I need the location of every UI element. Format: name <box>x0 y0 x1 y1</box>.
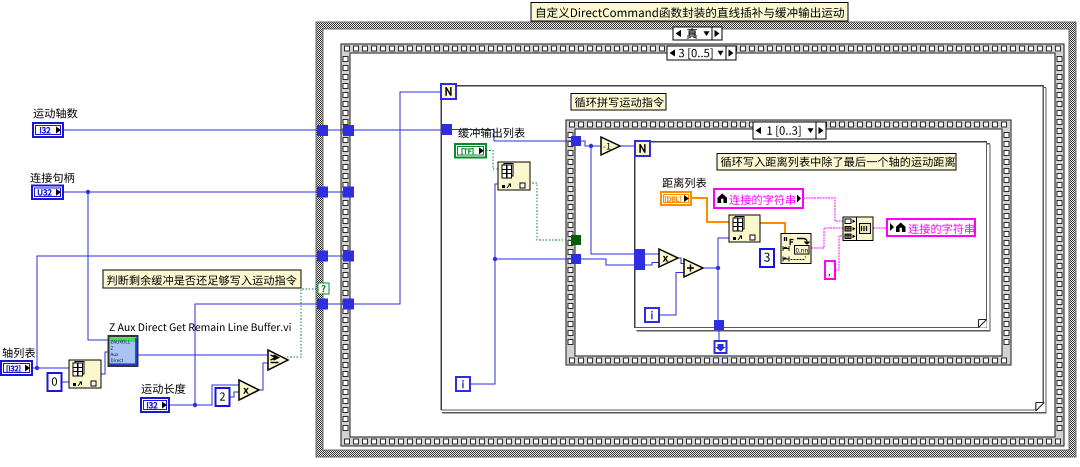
wire multiply to add (inner) <box>678 258 684 264</box>
wire greater-equal to case selector ? <box>287 289 317 357</box>
wire loop count between borders <box>328 303 343 305</box>
wire multiply to greater-equal <box>259 363 268 390</box>
terminal 轴列表 [I32] <box>1 361 32 375</box>
label 距离列表 <box>662 178 706 189</box>
wire 距离列表 DBL to index node 2 <box>691 198 729 222</box>
wire 轴列表 between borders <box>328 255 343 257</box>
tunnel inner seq row3 <box>571 254 581 264</box>
terminal 运动长度 I32 <box>141 398 169 412</box>
terminal 连接句柄 U32 <box>32 186 63 200</box>
tunnel case row1 <box>317 125 328 136</box>
label 缓冲输出列表 <box>458 128 525 138</box>
wire 运动长度 to multiply <box>169 385 239 405</box>
tunnel seq row1 <box>343 125 354 136</box>
wire TF terminal to index node (boolean array) <box>486 151 499 170</box>
wire branch down to inner loop tunnel upper <box>591 146 634 254</box>
i terminal (inner loop) <box>645 308 659 322</box>
label Z Aux Direct Get Remain Line Buffer.vi <box>110 323 291 332</box>
stacked sequence structure border (film) <box>341 44 1064 446</box>
sequence local (down arrow) <box>715 341 727 353</box>
node index array (buffer list) <box>498 162 530 190</box>
node -1 (decrement) <box>601 137 620 155</box>
wire comma constant to concatenate <box>835 236 843 270</box>
label 连接句柄 <box>30 173 74 183</box>
node concatenate strings <box>843 217 873 241</box>
wire 轴列表 to index node <box>32 367 69 369</box>
tunnel seq row2 <box>343 187 354 198</box>
wire 运动轴数 seq to loop tunnel <box>354 129 441 131</box>
label 运动长度 <box>141 384 185 394</box>
for loop (inner) folded corner <box>978 319 986 327</box>
constant 0 <box>48 373 62 391</box>
wire loop count seq to N <box>354 92 441 304</box>
node multiply (left) <box>239 380 259 400</box>
terminal 缓冲输出列表 [TF] <box>455 144 486 158</box>
wire index node to green tunnel <box>529 183 571 240</box>
wire format node to concatenate <box>811 228 843 248</box>
tunnel inner seq green <box>571 235 581 245</box>
wire bottom tunnel to sequence local <box>718 330 720 342</box>
wire index node 2 to format node <box>759 223 785 233</box>
wire junction down to bottom tunnel <box>717 268 719 321</box>
node index array 2 (distance) <box>729 215 760 242</box>
constant 3 <box>760 249 774 267</box>
subVI Z Aux Direct Get Remain Line Buffer <box>109 336 138 366</box>
diagram title label <box>531 3 848 22</box>
wire 2 constant to multiply <box>229 392 239 397</box>
case structure border (checkered) <box>316 22 1076 457</box>
wire 运动轴数 to case <box>63 129 317 131</box>
wire local variable 1 to concatenate <box>803 198 843 221</box>
wire i (inner) to add <box>658 273 684 316</box>
label 循环拼写运动指令 <box>571 94 666 111</box>
constant comma string <box>825 261 835 279</box>
wire VI output to greater-equal <box>137 354 268 356</box>
label 判断剩余缓冲是否还足够写入运动指令 <box>103 270 301 288</box>
tunnel case row2 <box>317 187 328 198</box>
tunnel loop row1 <box>441 124 452 135</box>
inner sequence frame selector 1 [0..3] <box>753 122 826 139</box>
constant 2 <box>216 388 230 406</box>
node add (inner) <box>684 259 703 277</box>
tunnel inner seq row1 <box>571 136 581 146</box>
wire 连接句柄 between borders <box>328 191 343 193</box>
node multiply (inner) <box>659 249 678 267</box>
case selector label 真 <box>673 27 722 40</box>
node greater-or-equal <box>268 350 288 370</box>
tunnel case row4 <box>317 299 328 310</box>
wire lower tunnel to multiply (inner) <box>645 263 659 266</box>
node index array (axis list) <box>69 360 101 388</box>
terminal 距离列表 [DBL] <box>661 192 691 205</box>
tunnel case row3 <box>317 251 328 262</box>
N terminal (outer loop) <box>441 84 456 99</box>
inner sequence structure border (film) <box>566 120 1011 365</box>
wire i (outer) to index node vertical <box>470 184 499 384</box>
for loop (inner) frame <box>634 141 991 331</box>
i terminal (outer loop) <box>456 377 470 391</box>
tunnel inner loop bottom <box>714 320 724 330</box>
wire index node to VI <box>101 352 109 374</box>
wire upper tunnel to multiply (inner) <box>645 253 659 255</box>
tunnel inner loop lower <box>634 260 645 271</box>
tunnel seq row3 <box>343 251 354 262</box>
label 运动轴数 <box>33 108 77 118</box>
tunnel inner loop upper <box>634 249 645 260</box>
for loop (outer) frame <box>441 85 1047 414</box>
wire 轴列表 up and to case <box>37 256 317 368</box>
wire i branch to inner seq tunnel <box>495 258 571 260</box>
case selector terminal ? <box>318 283 329 294</box>
wire -1 to N <box>620 145 635 147</box>
local variable 连接的字符串 (write) <box>887 219 975 236</box>
sequence frame selector 3 [0..5] <box>667 46 736 60</box>
wire 0 constant to index node <box>62 381 69 383</box>
tunnel seq row4 <box>343 299 354 310</box>
wire inner seq to inner loop lower tunnel <box>581 259 634 265</box>
wire i (inner loop count) stub <box>650 147 652 149</box>
label 循环写入距离列表中除了最后一个轴的运动距离 <box>717 154 956 171</box>
label 轴列表 <box>3 348 36 358</box>
terminal 运动轴数 I32 <box>33 123 63 137</box>
wire 运动轴数 between borders <box>328 129 343 131</box>
wire 连接句柄 down to VI <box>88 192 109 340</box>
wire 连接句柄 to case <box>64 191 317 193</box>
wire inner seq to -1 node <box>581 141 601 146</box>
node format into string <box>781 234 811 264</box>
wire 运动长度 up to case (loop count) <box>195 304 317 405</box>
N terminal (inner loop) <box>635 141 650 156</box>
wire 运动轴数 inside loop to inner seq <box>452 130 571 142</box>
local variable 连接的字符串 (read) <box>714 189 803 208</box>
wire add output to index node 2 <box>703 238 729 268</box>
wire concatenate to local variable 2 <box>873 227 887 229</box>
for loop (outer) folded corner <box>1036 402 1045 411</box>
